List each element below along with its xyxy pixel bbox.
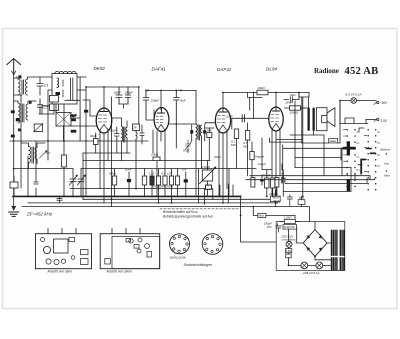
label ZF freq [26, 212, 53, 217]
svg-text:C2: C2 [43, 106, 48, 110]
socket diagram DL96 [202, 234, 223, 255]
switch bank SW-R dashes [364, 132, 380, 172]
capacitor IFT1 pad [115, 127, 120, 153]
capacitor dark small c [16, 118, 20, 121]
label welle [330, 139, 337, 143]
label Ansicht von oben [47, 269, 73, 273]
label 0.2uF [263, 173, 270, 177]
wire transformer top feed [299, 93, 309, 109]
svg-text:Umschaltung: Umschaltung [282, 238, 297, 241]
svg-text:50pF: 50pF [110, 129, 117, 133]
band switch S1 crossed box [56, 113, 71, 127]
wire switch drops [290, 124, 368, 180]
svg-text:DL94: DL94 [266, 67, 277, 72]
wire top row [34, 76, 52, 78]
switch bank SW-R contacts [367, 129, 376, 191]
capacitor dark on drop [260, 175, 264, 185]
svg-text:Betriebsspannungsschalter auf: Betriebsspannungsschalter auf Aus [163, 215, 213, 219]
label koppel [255, 155, 264, 159]
capacitor tank dark a [190, 125, 193, 141]
switch arrow indicator [386, 153, 388, 172]
label 50nF row [125, 168, 132, 172]
svg-text:125: 125 [167, 172, 172, 176]
resistor 4.5 box [285, 249, 291, 253]
svg-text:30kΩ: 30kΩ [109, 172, 117, 176]
label 10k V2 [151, 153, 159, 157]
tube V1 DK92 [96, 108, 112, 133]
svg-text:MΩ: MΩ [243, 144, 248, 148]
svg-text:452 AB: 452 AB [345, 66, 379, 77]
rectifier bridge GR1 [303, 230, 327, 257]
wire mech link dashed [160, 208, 240, 210]
wire right cap ends [272, 196, 280, 203]
coil L3 RF coil [14, 101, 34, 123]
label tube V2 DAF41 [152, 67, 167, 72]
wire thick ground bus [13, 195, 241, 197]
wire bus y141 [10, 140, 148, 142]
wire right bus 1 [250, 176, 370, 179]
svg-text:1,25: 1,25 [149, 172, 155, 176]
chassis panel bottom view [100, 229, 160, 269]
svg-text:20nF: 20nF [225, 114, 233, 118]
mains plug box [258, 213, 266, 217]
capacitor tank dark b [203, 125, 206, 141]
label 90V [382, 101, 389, 105]
pilot lamp La1 [340, 98, 376, 104]
label 30k [109, 172, 117, 176]
wire mid verticals [199, 169, 233, 205]
label Batterie [381, 148, 391, 152]
speaker LS1 [316, 108, 335, 131]
capacitor C1 [37, 77, 43, 95]
wire psu left column [288, 229, 290, 265]
tube V4 DL94 [269, 107, 283, 131]
capacitor blob a [84, 110, 88, 113]
tube V2 DAF41 [154, 108, 169, 132]
wire feed to power [241, 196, 277, 242]
wire inner rail [20, 95, 22, 141]
label 20nF [0, 0, 1, 1]
svg-text:Netz: Netz [384, 174, 390, 178]
wire V2 top [146, 90, 196, 117]
capacitor dark pair [282, 170, 285, 196]
svg-text:MΩ: MΩ [231, 143, 236, 147]
label C3 [46, 151, 50, 155]
svg-text:Koppel: Koppel [255, 155, 264, 159]
label 1.2k [284, 216, 293, 220]
capacitor 8uF left [143, 90, 154, 120]
capacitor row 50nF [127, 172, 131, 196]
label 220V [281, 236, 297, 242]
terminal 1.5V [366, 118, 379, 121]
svg-text:30pF: 30pF [90, 134, 97, 138]
wire V4 pins [272, 130, 280, 203]
capacitor dark rail b [11, 135, 15, 138]
wire avc bus [83, 198, 272, 200]
capacitor 25nF box left [10, 176, 18, 196]
wire right hooks [341, 118, 364, 165]
capacitor 8uF right [174, 90, 179, 124]
capacitor dark rail a [11, 110, 15, 113]
capacitor 60pF top [116, 87, 131, 108]
wire V4 anode [275, 93, 277, 108]
wire right bus 3 [285, 179, 367, 184]
resistor row R7 [175, 169, 179, 197]
resistor nsw box [286, 254, 292, 258]
wire B+ rail right [295, 97, 303, 196]
wire speaker loop [299, 94, 340, 143]
label 30pF [90, 134, 97, 138]
svg-text:Netz: Netz [259, 215, 265, 218]
wire right bus 7 [283, 168, 351, 192]
switch bar SW-L lower [347, 179, 350, 191]
label 60pF [114, 91, 133, 95]
svg-text:Sockelschaltungen: Sockelschaltungen [184, 263, 213, 267]
svg-text:DAF41: DAF41 [217, 67, 232, 72]
wire lamp row [289, 260, 332, 266]
coil L1 antenna coil [14, 77, 34, 95]
svg-text:ZF=452 kHz: ZF=452 kHz [26, 212, 53, 217]
resistor 0.1M under pot [206, 185, 212, 189]
label C1 [44, 84, 49, 88]
label 3k [290, 93, 296, 97]
label 60pF small [70, 114, 76, 118]
wire lamp drop [340, 101, 366, 124]
resistor 10k left [62, 141, 67, 196]
label 100pF psu [269, 192, 278, 196]
resistor 100k box [285, 106, 308, 110]
svg-text:2x8µF: 2x8µF [257, 162, 266, 166]
svg-text:150pF: 150pF [125, 91, 134, 95]
trimmer X mid [34, 123, 44, 132]
svg-text:2xB,2V,0,1A: 2xB,2V,0,1A [302, 271, 319, 275]
capacitor 2nF box [205, 128, 214, 161]
svg-text:2nF: 2nF [206, 129, 212, 133]
wire right bus 5 [295, 157, 342, 159]
svg-text:DK92,DAF41,DL94: DK92,DAF41,DL94 [153, 186, 174, 189]
resistor stage4 Rd [275, 178, 279, 197]
resistor 1.2k box [280, 220, 299, 224]
wire bus y153 [83, 152, 130, 154]
svg-text:60pF: 60pF [70, 114, 76, 118]
svg-text:GLEICHR.: GLEICHR. [284, 226, 296, 229]
wire V3 grid [205, 123, 216, 124]
IF transformer IFT2 [133, 87, 145, 189]
svg-text:60pF: 60pF [114, 91, 121, 95]
label ik [214, 155, 222, 159]
svg-text:Welle: Welle [330, 139, 337, 143]
output transformer TR1 [308, 108, 315, 131]
label zf1 [132, 125, 137, 129]
junction y215 [252, 206, 254, 208]
wire bridge links [297, 222, 331, 260]
wire IFT1 bottoms [122, 138, 128, 160]
wire avc rail x111 [111, 97, 113, 207]
svg-text:Ansicht von unten: Ansicht von unten [106, 269, 133, 273]
svg-text:4,5: 4,5 [161, 172, 166, 176]
label 2nF [206, 129, 212, 133]
resistor stage4 Rb [271, 178, 275, 196]
label 7k [299, 196, 305, 200]
switch contact marks dark [367, 149, 376, 154]
label 180uF [264, 222, 273, 229]
svg-text:0,2µF: 0,2µF [263, 173, 270, 177]
label 8uF [151, 99, 186, 103]
label Ein [384, 174, 390, 178]
IF transformer IFT3 [196, 117, 202, 196]
label 2x8uF [257, 162, 266, 166]
welle box [329, 139, 338, 143]
resistor 0.1M tall [206, 185, 212, 189]
capacitor 5nF on bus [57, 196, 62, 203]
capacitor 25nF coupling [242, 115, 244, 122]
resistor 7k box [298, 196, 305, 206]
capacitor 100pF psu a [270, 190, 280, 207]
wire right bus 4 [283, 148, 342, 175]
label antenna V [16, 76, 19, 80]
label pilot lamp [346, 93, 362, 97]
svg-text:5nF: 5nF [182, 168, 187, 172]
capacitor blob c [71, 130, 77, 133]
wire left bus links [14, 153, 83, 199]
label Bereichschalter [163, 210, 198, 214]
label 1.25 [149, 172, 155, 176]
switch bar SW-L main [343, 141, 356, 155]
wire screen bus [70, 188, 212, 190]
capacitor C2 [38, 99, 43, 114]
svg-text:10kΩ: 10kΩ [214, 155, 222, 159]
wire coupling line y118 [232, 118, 269, 129]
label heater chain [153, 186, 174, 189]
resistor row R2 [142, 169, 146, 197]
svg-text:3kΩ: 3kΩ [290, 93, 296, 97]
capacitor blob b [71, 119, 76, 122]
variable capacitor C3 tuning [70, 169, 78, 197]
svg-text:ZF: ZF [132, 125, 137, 129]
label sockets DK92 DL96 [170, 256, 186, 260]
label 1.5V [381, 119, 388, 123]
socket diagram DK92 [170, 234, 190, 254]
koppel box [250, 142, 254, 180]
svg-text:100kΩ: 100kΩ [290, 111, 300, 115]
switch lamp X [286, 241, 292, 247]
resistor 0.1M box a [234, 129, 238, 169]
wire V2 grid link [154, 110, 196, 148]
ground GND1 [9, 196, 19, 216]
svg-text:1,2kΩ: 1,2kΩ [284, 216, 293, 220]
mains transformer TR2 core [332, 231, 344, 271]
label Gleichrichter [284, 226, 296, 229]
label tube V1 DK92 [94, 66, 106, 71]
label 0.1M pot [201, 165, 211, 169]
switch bank SW-L contacts [346, 129, 355, 187]
svg-text:8µF: 8µF [181, 99, 186, 103]
label 3.5k [258, 86, 266, 90]
svg-text:10kΩ: 10kΩ [151, 153, 159, 157]
label 5nF row [182, 168, 187, 172]
label 50nF ift1 [110, 129, 117, 133]
svg-text:50nF: 50nF [125, 168, 132, 172]
title Radione 452 AB [314, 66, 378, 77]
coil L4 [21, 143, 45, 169]
resistor row R4 [156, 169, 160, 203]
svg-text:DK92: DK92 [94, 66, 106, 71]
panel1 boxes [69, 238, 88, 265]
svg-text:30nF: 30nF [273, 199, 280, 203]
svg-text:Batterie: Batterie [381, 148, 391, 152]
wire rail x80 [65, 77, 80, 141]
panel1 small circles [46, 256, 75, 265]
svg-text:7kΩ: 7kΩ [299, 196, 305, 200]
label lamps [302, 271, 319, 275]
resistor 100pF box [50, 96, 59, 103]
svg-text:DK92,DL96: DK92,DL96 [170, 256, 186, 260]
capacitor psu b [287, 195, 292, 206]
lamp La3 [316, 262, 323, 269]
rectifier label box [283, 225, 297, 230]
label tube V4 DL94 [266, 67, 277, 72]
resistor stage4 Ra [265, 170, 269, 196]
wire V3 anode top [223, 93, 309, 109]
label 100k [290, 111, 300, 115]
wire V1 pins [100, 129, 108, 203]
resistor 10k box V2 [153, 157, 160, 161]
power unit frame [276, 222, 345, 271]
svg-text:Radione: Radione [314, 67, 339, 75]
wire psu bus [253, 207, 295, 216]
svg-text:4,5Ω: 4,5Ω [286, 250, 291, 253]
chassis panel top view [36, 229, 92, 269]
variable capacitor C4 tuning [78, 169, 86, 197]
svg-text:150pF: 150pF [151, 99, 160, 103]
label Ansicht von unten [106, 269, 133, 273]
potentiometer P1 volume [200, 161, 217, 197]
svg-text:30nF: 30nF [286, 101, 293, 105]
svg-text:90V: 90V [382, 101, 389, 105]
svg-text:Bereichschalter auf Kurz: Bereichschalter auf Kurz [163, 210, 198, 214]
wire V1 anode loop [86, 87, 139, 196]
switch bar SW-R hook [361, 160, 365, 174]
trimmer under V1 [94, 133, 99, 153]
antenna A1 [7, 59, 21, 75]
label 4.5 [161, 172, 166, 176]
wire mid left [14, 95, 54, 114]
svg-text:0,1M: 0,1M [183, 149, 190, 153]
wire right bus 6 [295, 167, 351, 169]
capacitor 180uF electrolytic [276, 224, 282, 232]
resistor row R6 [169, 169, 173, 203]
wire bus y160 [83, 160, 210, 162]
svg-text:B 2,5V 0,1A: B 2,5V 0,1A [346, 93, 362, 97]
resistor row R1 30k [112, 169, 116, 197]
wire antenna lead [13, 75, 15, 78]
label 30nF [286, 101, 293, 105]
label 0.1M row [167, 172, 172, 176]
label Sockelschaltungen [184, 263, 213, 267]
wire heater bus a [28, 202, 276, 204]
resistor stage4 Rc [251, 178, 255, 188]
panel2 components [105, 238, 152, 264]
lamp La2 [301, 262, 308, 269]
wire right bus 2 [246, 179, 375, 180]
label 0.1M a [231, 140, 236, 147]
wire y215 link [294, 216, 296, 222]
switch bank SW-L dashes [344, 130, 360, 170]
label Betriebsspannung [163, 215, 213, 219]
label 1M b [243, 141, 248, 148]
svg-text:Ansicht von oben: Ansicht von oben [47, 269, 73, 273]
label tube V3 DAF41 [217, 67, 232, 72]
svg-text:0,1MΩ: 0,1MΩ [201, 165, 211, 169]
antenna coil blob [18, 75, 32, 131]
wire left rail [13, 78, 15, 196]
resistor row R3 [150, 170, 154, 196]
wire left column drops [21, 141, 38, 196]
label 0.1M trimmer [183, 149, 190, 153]
wire osc box drops [48, 77, 86, 160]
panel2 inner rect [112, 237, 160, 269]
oscillator coil L2 frame [52, 71, 77, 104]
label netz [259, 215, 265, 218]
IF transformer IFT1 [112, 118, 128, 142]
svg-text:C3: C3 [46, 151, 50, 155]
svg-text:10kΩ: 10kΩ [258, 86, 266, 90]
label 50nF right [273, 196, 280, 204]
label C2 [43, 106, 48, 110]
svg-text:Aus: Aus [383, 161, 389, 165]
wire V3 pins [219, 131, 227, 203]
trimmer X lower [40, 150, 48, 158]
capacitor row 5nF [184, 172, 188, 196]
wire V2 pins [153, 130, 165, 196]
wire top feeds [250, 93, 254, 119]
svg-text:1,5V: 1,5V [381, 119, 388, 123]
label 4.5ohm [286, 250, 291, 253]
resistor 150pF box [50, 104, 59, 111]
label Aus [383, 161, 389, 165]
wire stage4 drops [262, 138, 302, 170]
resistor 1M box b [245, 123, 249, 176]
wire bus y168 [83, 168, 256, 170]
tube V3 DAF41 [215, 108, 230, 133]
capacitor 30nF screen [284, 97, 299, 102]
svg-text:C1: C1 [44, 84, 49, 88]
terminal 90V [374, 101, 379, 104]
wire V1 grid [71, 100, 97, 126]
resistor row R5 [163, 161, 167, 197]
wire heater bus b [22, 207, 310, 222]
panel1 circle big [41, 238, 51, 254]
choke coil Dr [229, 164, 283, 196]
panel1 tuning capacitor square [54, 239, 69, 253]
label 25nF [225, 114, 233, 118]
trimmer T2 diag [185, 140, 192, 153]
svg-text:DAF41: DAF41 [152, 67, 167, 72]
resistor 3.5k box top [257, 90, 268, 95]
